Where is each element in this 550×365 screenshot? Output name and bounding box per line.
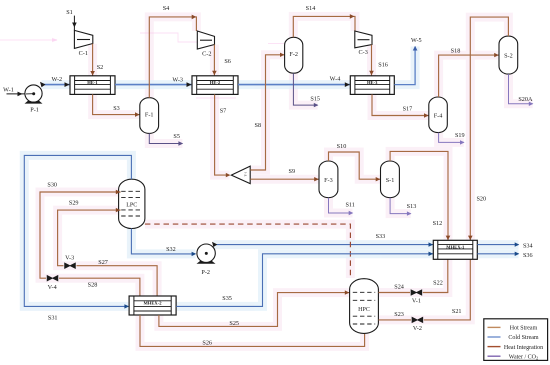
svg-text:MHEX-2: MHEX-2 — [143, 301, 162, 306]
wire W-1 inlet line — [3, 86, 26, 96]
stream S30 hot into LPC — [40, 182, 140, 297]
svg-text:S17: S17 — [403, 106, 413, 113]
svg-text:S19: S19 — [455, 132, 465, 139]
svg-text:F-4: F-4 — [434, 113, 443, 120]
svg-text:Heat Integration: Heat Integration — [504, 345, 543, 351]
svg-text:MHEX-1: MHEX-1 — [446, 244, 465, 249]
stream S6 — [212, 45, 231, 76]
svg-text:P-1: P-1 — [30, 107, 39, 114]
svg-text:F-2: F-2 — [289, 51, 298, 58]
svg-text:S22: S22 — [433, 280, 443, 287]
svg-text:P-2: P-2 — [201, 269, 210, 276]
stream S9 — [250, 168, 319, 181]
svg-text:S8: S8 — [255, 122, 262, 129]
stream S36 cold out — [477, 252, 532, 259]
svg-text:S31: S31 — [48, 314, 58, 321]
wire W-5 cold water out — [394, 37, 421, 85]
stream S35 cold MHEX-2 to MHEX-1 — [176, 252, 433, 307]
svg-text:HPC: HPC — [358, 307, 370, 313]
svg-text:S20A: S20A — [518, 96, 533, 103]
svg-text:V-2: V-2 — [413, 325, 422, 332]
stream S13 water out — [390, 198, 416, 216]
stream S4 — [149, 5, 196, 98]
ghost artifact lines — [0, 33, 284, 98]
svg-text:S36: S36 — [523, 252, 533, 259]
svg-text:S27: S27 — [98, 259, 108, 266]
svg-text:S26: S26 — [202, 340, 212, 347]
svg-text:S7: S7 — [220, 108, 227, 115]
svg-text:S13: S13 — [407, 203, 417, 210]
svg-text:S-2: S-2 — [504, 53, 513, 60]
heat exchanger MHEX-1 — [433, 240, 477, 259]
svg-text:HE-1: HE-1 — [87, 80, 98, 85]
stream S21 hot V-2 to MHEX-1 — [424, 259, 471, 320]
stream S14 — [293, 5, 355, 37]
svg-text:S15: S15 — [310, 95, 320, 102]
svg-text:S35: S35 — [222, 295, 232, 302]
svg-text:S25: S25 — [229, 320, 239, 327]
compressor C-3 — [355, 31, 372, 56]
svg-text:W-5: W-5 — [411, 37, 422, 44]
stream S32 cold LPC bottom to P-2 — [131, 229, 196, 257]
svg-text:S18: S18 — [451, 47, 461, 54]
svg-text:S9: S9 — [289, 168, 296, 175]
flash drum F-4 — [429, 97, 448, 133]
stream S5 water out — [149, 133, 183, 146]
stream S24 hot HPC to V-1 — [378, 284, 410, 293]
wire heat integration LPC to HPC (dashed) — [145, 224, 351, 278]
svg-text:C-3: C-3 — [359, 49, 368, 56]
column HPC — [350, 279, 379, 334]
svg-text:S-1: S-1 — [386, 177, 395, 184]
svg-text:W-2: W-2 — [51, 76, 62, 83]
flash drum F-3 — [319, 161, 338, 198]
svg-text:LPC: LPC — [126, 202, 137, 208]
column LPC — [119, 179, 145, 228]
svg-text:S6: S6 — [224, 58, 231, 65]
stream S25 hot MHEX-2 to HPC — [159, 290, 350, 327]
svg-text:S1: S1 — [66, 9, 73, 16]
wire W-3 cold line HE-1 to HE-2 — [115, 77, 192, 87]
svg-text:S2: S2 — [97, 64, 104, 71]
svg-text:F-1: F-1 — [145, 112, 154, 119]
flash drum F-2 — [285, 37, 303, 73]
pump P-2 — [197, 244, 216, 276]
stream S20A — [509, 74, 534, 106]
svg-text:V-4: V-4 — [48, 284, 57, 291]
stream S3 — [93, 94, 140, 117]
stream S17 — [372, 94, 429, 117]
heat exchanger HE-1 — [70, 76, 115, 95]
stream S2 — [90, 44, 103, 76]
svg-text:C-2: C-2 — [202, 50, 211, 57]
svg-text:W-4: W-4 — [330, 76, 341, 83]
stream S11 water out — [329, 198, 355, 216]
svg-text:S21: S21 — [452, 308, 462, 315]
svg-text:S23: S23 — [394, 311, 404, 318]
stream S18 — [439, 47, 499, 97]
turbine T-1 — [231, 166, 250, 184]
svg-text:S33: S33 — [376, 233, 386, 240]
svg-text:W-3: W-3 — [172, 77, 183, 84]
compressor C-2 — [197, 31, 214, 57]
flash drum F-1 — [140, 98, 159, 134]
heat exchanger HE-2 — [192, 76, 238, 95]
svg-text:S29: S29 — [69, 199, 79, 206]
stream S8 — [250, 53, 284, 170]
valve V-1 — [411, 290, 422, 305]
separator S-1 — [381, 161, 400, 198]
stream S20 — [468, 17, 508, 240]
stream S22 hot V-1 to MHEX-1 — [423, 259, 448, 292]
svg-text:S11: S11 — [345, 201, 354, 208]
stream S33 cold P-2 to MHEX-1 — [212, 233, 433, 247]
svg-text:HE-3: HE-3 — [367, 80, 378, 85]
svg-text:S10: S10 — [337, 143, 347, 150]
svg-text:V-3: V-3 — [65, 255, 74, 262]
svg-text:Hot Stream: Hot Stream — [510, 326, 538, 332]
wire W-4 cold line HE-2 to HE-3 — [238, 76, 350, 87]
halo glow under cold stream lines — [24, 47, 518, 307]
stream S7 — [215, 94, 231, 177]
stream S34 cold out — [477, 242, 532, 249]
svg-text:C-1: C-1 — [79, 50, 88, 57]
stream S29 hot into LPC — [58, 199, 158, 296]
svg-text:S32: S32 — [166, 246, 176, 253]
svg-text:S24: S24 — [394, 284, 404, 291]
svg-text:T-1: T-1 — [244, 171, 248, 176]
stream S23 hot HPC to V-2 — [378, 311, 411, 320]
svg-text:S28: S28 — [88, 281, 98, 288]
valve V-3 — [65, 255, 76, 269]
heat exchanger HE-3 — [350, 76, 394, 95]
stream S16 — [369, 45, 388, 76]
stream S10 — [329, 143, 381, 181]
svg-text:S16: S16 — [378, 62, 388, 69]
svg-text:V-1: V-1 — [412, 298, 421, 305]
separator S-2 — [499, 36, 518, 74]
valve V-2 — [412, 317, 423, 332]
valve V-4 — [47, 276, 58, 291]
stream S19 water out — [439, 132, 465, 145]
svg-text:S14: S14 — [306, 5, 316, 12]
svg-text:S34: S34 — [523, 242, 533, 249]
pump P-1 — [25, 85, 43, 114]
wire cold loop LPC top to S31 — [24, 155, 131, 321]
svg-text:HE-2: HE-2 — [210, 80, 221, 85]
compressor C-1 — [74, 30, 92, 57]
svg-text:S5: S5 — [173, 133, 180, 140]
svg-text:W-1: W-1 — [3, 86, 14, 93]
svg-text:S12: S12 — [433, 220, 443, 227]
stream S15 water out — [293, 73, 320, 107]
heat exchanger MHEX-2 — [129, 296, 176, 315]
svg-text:S3: S3 — [113, 105, 120, 112]
stream S12 — [390, 151, 450, 240]
svg-text:S4: S4 — [163, 5, 170, 12]
svg-text:S30: S30 — [47, 182, 57, 189]
svg-text:Cold Stream: Cold Stream — [508, 335, 538, 341]
stream S1 — [66, 9, 76, 31]
stream S26 hot HPC bottoms — [140, 315, 365, 347]
wire W-2 cold line pump to HE-1 — [40, 76, 70, 87]
svg-text:F-3: F-3 — [324, 177, 333, 184]
legend box — [484, 319, 548, 361]
svg-text:S20: S20 — [476, 196, 486, 203]
svg-text:Water / CO2: Water / CO2 — [509, 354, 538, 360]
